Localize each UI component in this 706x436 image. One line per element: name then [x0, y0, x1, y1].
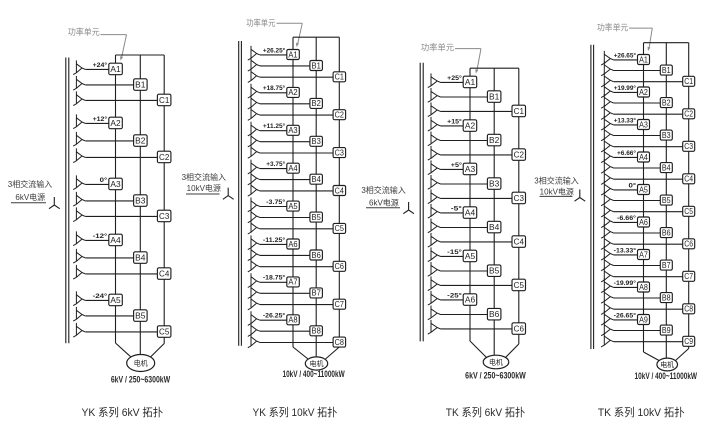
power cell A4 (TK10): [638, 152, 650, 162]
transformer secondary winding b6 (TK10): [601, 224, 614, 238]
transformer secondary winding c5 (YK10): [248, 220, 260, 234]
svg-text:B4: B4: [662, 163, 671, 172]
transformer secondary winding a4 (TK10): [601, 148, 614, 162]
svg-text:A4: A4: [110, 235, 121, 245]
wire: winding to cell B1 (YK6): [85, 84, 133, 86]
transformer secondary winding a3 (YK6): [73, 175, 85, 189]
wire: series column B (YK10): [315, 37, 317, 357]
svg-text:C5: C5: [159, 327, 170, 337]
power cell B5 (TK10): [660, 195, 672, 205]
wire: winding to cell B2 (YK10): [260, 103, 310, 105]
power cell C5 (TK6): [512, 279, 526, 291]
wire: winding to cell A4 (YK6): [85, 239, 109, 241]
svg-text:A7: A7: [639, 250, 648, 259]
power cell C6 (TK6): [512, 323, 526, 335]
wire: winding to cell A4 (TK10): [614, 156, 638, 158]
transformer secondary winding a7 (TK10): [601, 246, 614, 260]
wire: winding to cell B2 (TK10): [614, 102, 661, 104]
power cell C4 (TK6): [512, 236, 526, 248]
transformer secondary winding c1 (YK10): [248, 68, 260, 82]
transformer secondary winding c5 (TK10): [601, 203, 614, 217]
label: 3-phase AC input source (YK10): [182, 172, 226, 194]
wire: winding to cell C7 (TK10): [614, 276, 683, 278]
wire: A phase drop to motor (TK6): [470, 341, 487, 358]
wire: series column A (YK6): [115, 55, 117, 343]
transformer secondary winding a6 (YK10): [248, 235, 260, 249]
power cell C8 (YK10): [333, 337, 346, 347]
motor M 电机 (YK10): [305, 357, 327, 370]
svg-text:3相交流输入: 3相交流输入: [361, 185, 405, 195]
svg-text:功率单元: 功率单元: [246, 18, 276, 28]
svg-text:B1: B1: [662, 66, 671, 75]
svg-text:C7: C7: [684, 272, 693, 281]
power cell B8 (YK10): [310, 326, 323, 336]
wire: winding to cell C4 (TK6): [441, 241, 513, 243]
power cell A7 (YK10): [287, 277, 300, 287]
svg-text:6kV电源: 6kV电源: [15, 192, 45, 202]
wire: winding to cell A6 (TK6): [441, 299, 464, 301]
wire: winding to cell C2 (TK6): [441, 154, 513, 156]
callout label: 功率单元 power unit (TK10): [597, 23, 652, 51]
wire: winding to cell C5 (TK6): [441, 284, 513, 286]
svg-text:B6: B6: [489, 309, 500, 319]
transformer secondary winding b3 (YK10): [248, 133, 260, 147]
svg-text:电机: 电机: [134, 359, 148, 368]
svg-text:+13.33°: +13.33°: [614, 116, 637, 124]
svg-text:C2: C2: [514, 150, 525, 160]
wire: winding to cell A7 (YK10): [260, 281, 287, 283]
transformer secondary winding b1 (YK10): [248, 57, 260, 71]
transformer secondary winding c2 (TK6): [428, 146, 441, 160]
wire: winding to cell B9 (TK10): [614, 330, 661, 332]
svg-text:A8: A8: [288, 316, 297, 325]
svg-text:+6.66°: +6.66°: [617, 149, 636, 157]
wire: winding to cell B3 (YK6): [85, 200, 133, 202]
bus: 3-phase input bus bars (YK10): [239, 41, 242, 346]
svg-text:电机: 电机: [489, 358, 503, 367]
power cell C4 (YK10): [333, 186, 346, 196]
transformer secondary winding a7 (YK10): [248, 273, 260, 287]
svg-text:6kV电源: 6kV电源: [369, 197, 399, 207]
svg-text:B7: B7: [662, 261, 671, 270]
wire: winding to cell B2 (YK6): [85, 140, 133, 142]
wire: series column A (YK10): [292, 37, 294, 347]
wire: series column B (TK6): [493, 68, 495, 355]
svg-text:+15°: +15°: [447, 117, 462, 125]
power cell A1 (TK6): [463, 76, 477, 88]
svg-text:B8: B8: [312, 327, 321, 336]
power cell A6 (TK6): [463, 294, 477, 306]
svg-text:A5: A5: [110, 295, 121, 305]
transformer secondary winding b4 (TK10): [601, 159, 614, 173]
transformer secondary winding a3 (TK6): [428, 160, 441, 174]
transformer secondary winding c9 (TK10): [601, 333, 614, 347]
power cell B8 (TK10): [660, 293, 672, 303]
wire: winding to cell A6 (TK10): [614, 221, 638, 223]
power cell C8 (TK10): [683, 304, 695, 314]
transformer secondary winding c6 (TK6): [428, 320, 441, 334]
wire: top DC link (YK6): [116, 54, 165, 56]
svg-text:C9: C9: [684, 337, 693, 346]
power cell A2 (TK6): [463, 120, 477, 132]
svg-text:A6: A6: [465, 295, 476, 305]
svg-text:B6: B6: [312, 251, 321, 260]
motor M 电机 (TK6): [483, 355, 509, 369]
svg-text:+3.75°: +3.75°: [266, 160, 285, 168]
svg-text:-19.99°: -19.99°: [614, 279, 637, 287]
wire: C phase drop to motor (TK10): [676, 349, 689, 361]
transformer secondary winding b4 (YK6): [73, 249, 85, 263]
wire: winding to cell A2 (TK6): [441, 125, 464, 127]
transformer secondary winding c4 (TK10): [601, 170, 614, 184]
wye source symbol (YK10): [223, 188, 234, 200]
svg-text:C8: C8: [335, 338, 344, 347]
power cell B4 (TK10): [660, 163, 672, 173]
wire: winding to cell B1 (YK10): [260, 65, 310, 67]
transformer secondary winding c3 (TK6): [428, 189, 441, 203]
power cell C2 (YK6): [157, 151, 171, 163]
svg-text:A2: A2: [465, 121, 476, 131]
wire: winding to cell C7 (YK10): [260, 304, 333, 306]
transformer secondary winding b7 (YK10): [248, 284, 260, 298]
wire: A phase drop to motor (TK10): [644, 352, 660, 361]
power cell B3 (YK6): [134, 195, 148, 207]
wire: winding to cell A2 (TK10): [614, 91, 638, 93]
wire: winding to cell C8 (YK10): [260, 342, 333, 344]
transformer secondary winding a5 (TK6): [428, 247, 441, 261]
transformer secondary winding c2 (YK10): [248, 106, 260, 120]
power cell C7 (TK10): [683, 271, 695, 281]
svg-text:A3: A3: [465, 164, 476, 174]
wire: series column C (TK10): [688, 43, 690, 349]
transformer secondary winding a1 (YK10): [248, 46, 260, 60]
wire: winding to cell C2 (TK10): [614, 113, 683, 115]
transformer secondary winding a4 (TK6): [428, 204, 441, 218]
wire: winding to cell B5 (YK6): [85, 315, 133, 317]
svg-text:A6: A6: [288, 240, 297, 249]
transformer secondary winding a6 (TK10): [601, 213, 614, 227]
wire: winding to cell B1 (TK6): [441, 96, 488, 98]
svg-text:电机: 电机: [310, 359, 324, 368]
svg-text:-18.75°: -18.75°: [263, 274, 286, 282]
wire: winding to cell B6 (YK10): [260, 254, 310, 256]
transformer secondary winding c4 (YK6): [73, 265, 85, 279]
transformer secondary winding b1 (TK10): [601, 62, 614, 76]
transformer secondary winding c4 (YK10): [248, 182, 260, 196]
transformer secondary winding a3 (TK10): [601, 116, 614, 130]
svg-text:YK 系列 6kV 拓扑: YK 系列 6kV 拓扑: [81, 405, 163, 419]
wire: winding to cell B6 (TK6): [441, 314, 488, 316]
wye source symbol (TK6): [403, 202, 414, 214]
svg-text:A4: A4: [288, 164, 298, 173]
wire: winding to cell C1 (YK6): [85, 99, 157, 101]
wire: winding to cell C3 (TK6): [441, 197, 513, 199]
svg-text:-25°: -25°: [447, 291, 462, 299]
wire: winding to cell A1 (YK6): [85, 68, 109, 70]
power cell C3 (TK6): [512, 192, 526, 204]
transformer secondary winding c4 (TK6): [428, 233, 441, 247]
wye source symbol (YK6): [49, 197, 60, 209]
power cell B6 (TK6): [487, 308, 501, 320]
transformer secondary winding b8 (TK10): [601, 289, 614, 303]
power cell B1 (TK6): [487, 91, 501, 103]
svg-text:C4: C4: [159, 269, 170, 279]
wye source symbol (TK10): [575, 190, 586, 202]
wire: winding to cell A4 (TK6): [441, 212, 464, 214]
svg-text:B4: B4: [135, 253, 146, 263]
callout label: 功率单元 power unit (YK6): [68, 27, 127, 61]
svg-text:A6: A6: [639, 218, 648, 227]
wire: winding to cell A6 (YK10): [260, 243, 287, 245]
svg-text:C6: C6: [514, 324, 525, 334]
power cell A6 (YK10): [287, 239, 300, 249]
svg-text:A2: A2: [639, 88, 648, 97]
svg-text:A4: A4: [639, 153, 648, 162]
transformer secondary winding a2 (YK6): [73, 114, 85, 128]
transformer secondary winding a8 (TK10): [601, 278, 614, 292]
svg-text:B2: B2: [135, 136, 146, 146]
svg-text:A1: A1: [639, 55, 648, 64]
transformer secondary winding a5 (YK6): [73, 291, 85, 305]
wire: winding to cell B7 (TK10): [614, 265, 661, 267]
transformer secondary winding a8 (YK10): [248, 311, 260, 325]
wire: winding to cell B4 (YK6): [85, 257, 133, 259]
power cell B2 (TK6): [487, 134, 501, 146]
power cell A3 (YK10): [287, 125, 300, 135]
svg-text:B1: B1: [135, 80, 146, 90]
wire: winding to cell C1 (TK10): [614, 81, 683, 83]
power cell B6 (YK10): [310, 250, 323, 260]
svg-text:C4: C4: [684, 175, 693, 184]
transformer secondary winding c8 (YK10): [248, 334, 260, 348]
transformer secondary winding c2 (YK6): [73, 148, 85, 162]
svg-text:B3: B3: [312, 137, 321, 146]
svg-text:B4: B4: [312, 175, 322, 184]
bus: 3-phase input bus bars (YK6): [66, 58, 69, 344]
svg-text:C3: C3: [335, 148, 344, 157]
svg-text:3相交流输入: 3相交流输入: [534, 176, 578, 186]
label: 3-phase AC input source (TK6): [361, 185, 405, 208]
callout label: 功率单元 power unit (TK6): [421, 43, 481, 74]
wire: winding to cell C1 (YK10): [260, 76, 333, 78]
svg-text:TK 系列 6kV 拓扑: TK 系列 6kV 拓扑: [446, 405, 525, 419]
bus: 3-phase input bus bars (TK10): [591, 45, 594, 349]
transformer secondary winding b2 (TK10): [601, 94, 614, 108]
wire: winding to cell C5 (TK10): [614, 211, 683, 213]
power cell C3 (YK10): [333, 148, 346, 158]
power cell A3 (YK6): [109, 178, 123, 190]
wire: winding to cell A2 (YK6): [85, 122, 109, 124]
wire: top DC link (TK10): [644, 42, 689, 44]
wire: winding to cell B3 (TK10): [614, 135, 661, 137]
svg-text:A2: A2: [288, 88, 297, 97]
wire: winding to cell A8 (TK10): [614, 286, 638, 288]
svg-text:B2: B2: [489, 135, 500, 145]
svg-text:A3: A3: [288, 126, 297, 135]
power cell A7 (TK10): [638, 250, 650, 260]
wire: winding to cell C9 (TK10): [614, 341, 683, 343]
transformer secondary winding a1 (TK10): [601, 51, 614, 65]
power cell B4 (YK10): [310, 174, 323, 184]
wire: winding to cell B4 (YK10): [260, 179, 310, 181]
svg-text:A9: A9: [639, 315, 648, 324]
wire: winding to cell B6 (TK10): [614, 232, 661, 234]
svg-text:功率单元: 功率单元: [597, 23, 629, 33]
power cell B1 (YK10): [310, 61, 323, 71]
transformer secondary winding b2 (YK10): [248, 95, 260, 109]
wire: series column B (TK10): [665, 43, 667, 358]
svg-text:B3: B3: [135, 196, 146, 206]
svg-text:A1: A1: [110, 64, 121, 74]
svg-text:A5: A5: [465, 251, 476, 261]
svg-text:C5: C5: [335, 224, 345, 233]
wire: winding to cell A3 (YK6): [85, 183, 109, 185]
svg-text:A2: A2: [110, 118, 121, 128]
transformer secondary winding a9 (TK10): [601, 311, 614, 325]
transformer secondary winding a5 (YK10): [248, 198, 260, 212]
transformer secondary winding b4 (TK6): [428, 219, 441, 233]
wire: winding to cell B5 (TK6): [441, 270, 488, 272]
svg-text:C2: C2: [335, 111, 344, 120]
power cell A1 (YK10): [287, 50, 300, 60]
svg-text:10kV电源: 10kV电源: [187, 183, 221, 193]
wire: winding to cell C5 (YK6): [85, 331, 157, 333]
wire: winding to cell C4 (YK6): [85, 273, 157, 275]
svg-text:YK 系列 10kV 拓扑: YK 系列 10kV 拓扑: [253, 405, 338, 419]
power cell C6 (YK10): [333, 261, 346, 271]
svg-text:C6: C6: [684, 240, 693, 249]
svg-text:B7: B7: [312, 289, 321, 298]
wire: series column A (TK6): [469, 68, 471, 341]
svg-text:10kV / 400~11000kW: 10kV / 400~11000kW: [283, 369, 345, 380]
transformer secondary winding c1 (TK6): [428, 102, 441, 116]
svg-text:-26.25°: -26.25°: [263, 312, 286, 320]
transformer secondary winding b1 (YK6): [73, 76, 85, 90]
transformer secondary winding c6 (YK10): [248, 258, 260, 272]
transformer secondary winding c3 (YK6): [73, 207, 85, 221]
svg-text:C1: C1: [159, 95, 170, 105]
transformer secondary winding b9 (TK10): [601, 322, 614, 336]
transformer secondary winding a3 (YK10): [248, 122, 260, 136]
wire: winding to cell A7 (TK10): [614, 254, 638, 256]
svg-text:6kV / 250~6300kW: 6kV / 250~6300kW: [111, 374, 170, 385]
wire: C phase drop to motor (YK10): [326, 347, 340, 359]
svg-text:C1: C1: [684, 77, 693, 86]
transformer secondary winding c2 (TK10): [601, 105, 614, 119]
wire: series column C (YK10): [338, 37, 340, 347]
wire: series column C (YK6): [163, 55, 165, 344]
svg-text:C4: C4: [514, 237, 525, 247]
svg-text:A8: A8: [639, 283, 648, 292]
wire: winding to cell B2 (TK6): [441, 140, 488, 142]
power cell A3 (TK10): [638, 120, 650, 130]
svg-text:B9: B9: [662, 326, 671, 335]
power cell B2 (TK10): [660, 98, 672, 108]
wire: winding to cell A1 (TK6): [441, 81, 464, 83]
svg-text:C8: C8: [684, 305, 693, 314]
svg-text:功率单元: 功率单元: [68, 27, 100, 37]
svg-text:A5: A5: [639, 185, 648, 194]
transformer secondary winding c5 (YK6): [73, 323, 85, 337]
power cell A4 (TK6): [463, 207, 477, 219]
power cell A4 (YK10): [287, 163, 300, 173]
svg-text:C4: C4: [335, 186, 345, 195]
wire: winding to cell B3 (TK6): [441, 183, 488, 185]
svg-text:B3: B3: [662, 131, 671, 140]
svg-text:C5: C5: [684, 207, 693, 216]
power cell C1 (TK6): [512, 105, 526, 117]
transformer secondary winding b3 (TK10): [601, 127, 614, 141]
power cell B5 (YK10): [310, 212, 323, 222]
svg-text:B2: B2: [662, 98, 671, 107]
wire: winding to cell C2 (YK10): [260, 114, 333, 116]
wire: series column A (TK10): [643, 43, 645, 352]
svg-text:+26.25°: +26.25°: [263, 46, 286, 54]
power cell C2 (TK10): [683, 109, 695, 119]
svg-text:B5: B5: [135, 311, 146, 321]
transformer secondary winding c5 (TK6): [428, 276, 441, 290]
svg-text:6kV / 250~6300kW: 6kV / 250~6300kW: [465, 371, 526, 382]
svg-text:+5°: +5°: [451, 161, 462, 169]
svg-text:C2: C2: [684, 110, 693, 119]
power cell C5 (YK6): [157, 326, 171, 338]
power cell B4 (TK6): [487, 221, 501, 233]
svg-text:A4: A4: [465, 208, 476, 218]
svg-text:3相交流输入: 3相交流输入: [8, 179, 52, 189]
svg-text:+11.25°: +11.25°: [263, 122, 286, 130]
transformer secondary winding b7 (TK10): [601, 257, 614, 271]
wire: winding to cell A5 (TK6): [441, 255, 464, 257]
svg-text:-11.25°: -11.25°: [263, 236, 286, 244]
power cell A5 (TK6): [463, 250, 477, 262]
power cell B9 (TK10): [660, 325, 672, 335]
power cell C2 (TK6): [512, 149, 526, 161]
power cell A3 (TK6): [463, 163, 477, 175]
power cell A2 (YK10): [287, 87, 300, 97]
power cell A9 (TK10): [638, 315, 650, 325]
power cell A8 (TK10): [638, 282, 650, 292]
svg-text:A3: A3: [639, 120, 648, 129]
svg-text:+12°: +12°: [93, 115, 108, 123]
wire: winding to cell B3 (YK10): [260, 141, 310, 143]
power cell C7 (YK10): [333, 299, 346, 309]
svg-text:10kV电源: 10kV电源: [540, 186, 574, 196]
wire: winding to cell A2 (YK10): [260, 92, 287, 94]
transformer secondary winding a4 (YK10): [248, 160, 260, 174]
wire: winding to cell B5 (YK10): [260, 217, 310, 219]
power cell A1 (TK10): [638, 55, 650, 65]
wire: winding to cell A5 (TK10): [614, 189, 638, 191]
power cell A6 (TK10): [638, 217, 650, 227]
transformer secondary winding b3 (TK6): [428, 175, 441, 189]
wire: winding to cell A5 (YK6): [85, 299, 109, 301]
wire: winding to cell B7 (YK10): [260, 292, 310, 294]
transformer secondary winding a5 (TK10): [601, 181, 614, 195]
svg-text:C7: C7: [335, 300, 344, 309]
wire: winding to cell A1 (YK10): [260, 54, 287, 56]
power cell A8 (YK10): [287, 315, 300, 325]
wire: winding to cell A3 (TK10): [614, 124, 638, 126]
power cell C3 (TK10): [683, 141, 695, 151]
power cell A2 (YK6): [109, 117, 123, 129]
power cell B1 (YK6): [134, 79, 148, 91]
svg-text:电机: 电机: [660, 360, 674, 369]
transformer secondary winding c3 (YK10): [248, 144, 260, 158]
transformer secondary winding b2 (TK6): [428, 132, 441, 146]
wire: winding to cell B1 (TK10): [614, 70, 661, 72]
power cell B3 (YK10): [310, 136, 323, 146]
transformer secondary winding c1 (YK6): [73, 91, 85, 105]
